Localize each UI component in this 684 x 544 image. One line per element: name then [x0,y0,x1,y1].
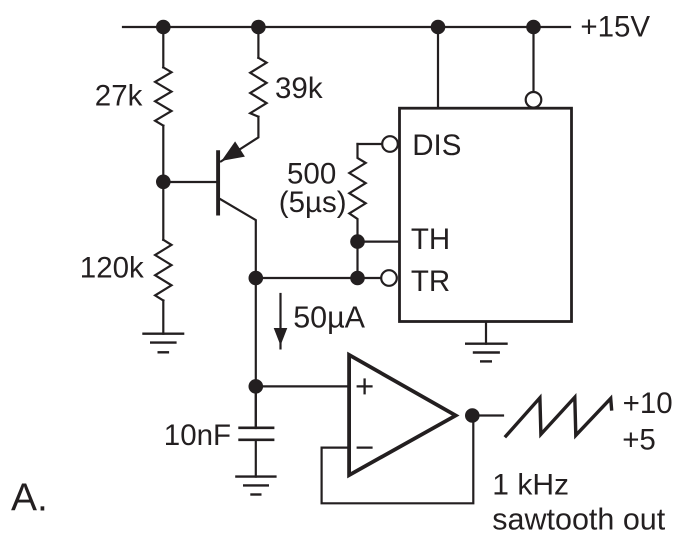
svg-text:10nF: 10nF [164,419,231,452]
svg-text:+10: +10 [623,387,673,420]
svg-text:39k: 39k [275,72,323,105]
svg-text:A.: A. [11,477,48,520]
svg-text:sawtooth out: sawtooth out [492,502,665,536]
svg-text:1 kHz: 1 kHz [492,469,569,502]
svg-text:TR: TR [411,265,450,298]
svg-text:TH: TH [411,223,450,256]
svg-text:27k: 27k [95,80,143,113]
svg-text:120k: 120k [80,252,144,285]
svg-text:(5µs): (5µs) [279,186,347,219]
svg-text:50µA: 50µA [293,300,365,334]
svg-text:DIS: DIS [412,129,461,162]
svg-text:+5: +5 [622,424,656,457]
svg-text:+15V: +15V [580,10,650,43]
